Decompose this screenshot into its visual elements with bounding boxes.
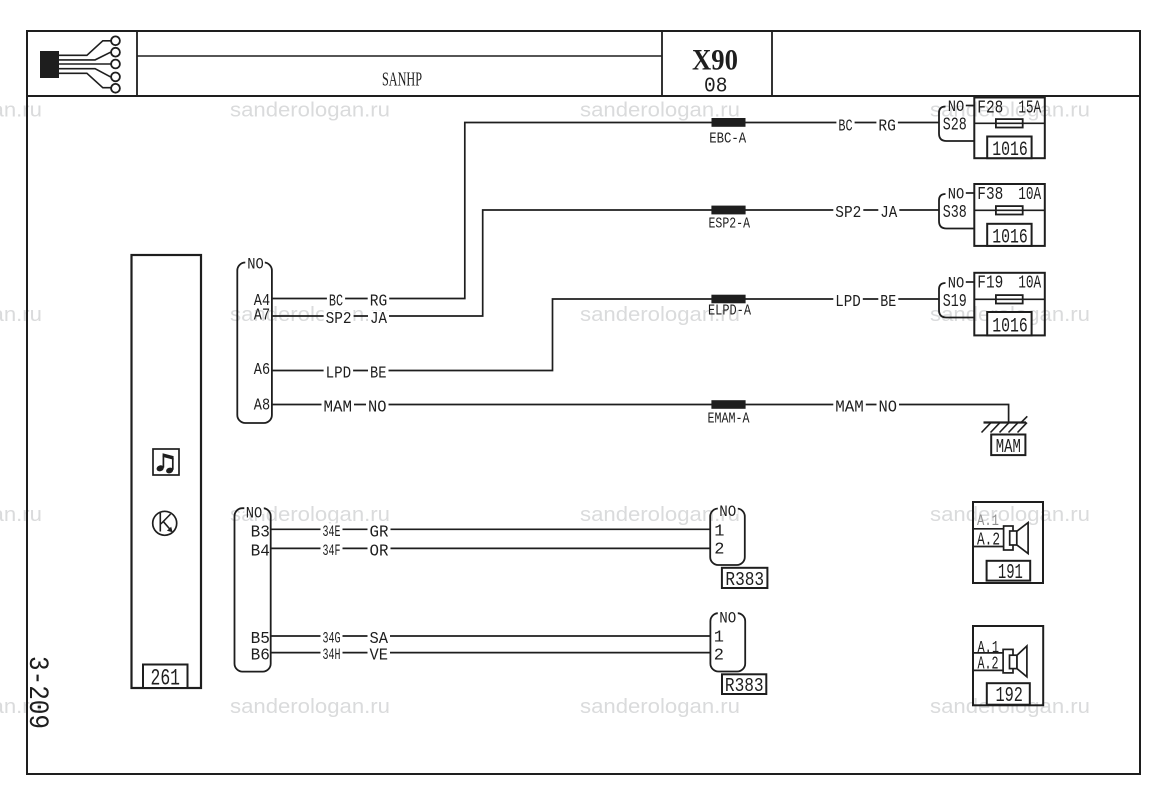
svg-text:LPD: LPD bbox=[835, 293, 861, 312]
wire 34G-SA (B5 to R383 pin 1) bbox=[271, 635, 711, 637]
svg-text:BC: BC bbox=[838, 118, 852, 137]
svg-text:34G: 34G bbox=[323, 630, 341, 648]
splice EBC-A bbox=[712, 118, 746, 127]
wire BC-RG (A4 to fuse F28) bbox=[272, 123, 939, 299]
svg-text:S19: S19 bbox=[943, 292, 967, 312]
svg-text:RG: RG bbox=[370, 293, 388, 312]
svg-text:B3: B3 bbox=[251, 523, 270, 542]
svg-text:S28: S28 bbox=[943, 116, 967, 136]
svg-text:S38: S38 bbox=[943, 203, 967, 223]
svg-text:NO: NO bbox=[719, 503, 736, 521]
wire (speaker 191 A.2) bbox=[973, 546, 1004, 548]
svg-text:X90: X90 bbox=[692, 44, 738, 77]
radio unit 261 bbox=[132, 255, 202, 688]
svg-text:1: 1 bbox=[714, 522, 724, 541]
svg-text:NO: NO bbox=[719, 610, 736, 628]
svg-text:NO: NO bbox=[948, 98, 965, 116]
wire 34H-VE (B6 to R383 pin 2) bbox=[271, 652, 711, 654]
svg-text:A8: A8 bbox=[254, 396, 270, 415]
svg-text:MAM: MAM bbox=[835, 399, 864, 418]
svg-text:EMAM-A: EMAM-A bbox=[708, 410, 750, 427]
svg-text:SP2: SP2 bbox=[326, 310, 352, 329]
svg-text:JA: JA bbox=[370, 310, 388, 329]
svg-text:SP2: SP2 bbox=[835, 204, 861, 223]
splice ESP2-A bbox=[711, 206, 745, 215]
svg-text:R383: R383 bbox=[725, 675, 764, 697]
unit label 192 bbox=[987, 683, 1030, 705]
svg-text:BC: BC bbox=[329, 293, 343, 312]
speaker 192 symbol bbox=[1003, 646, 1027, 677]
svg-text:B4: B4 bbox=[251, 542, 270, 561]
svg-text:MAM: MAM bbox=[324, 399, 353, 418]
connector S38 bbox=[939, 194, 974, 229]
svg-text:192: 192 bbox=[996, 685, 1023, 708]
radio key icon bbox=[153, 511, 177, 535]
svg-text:EBC-A: EBC-A bbox=[709, 131, 746, 148]
svg-text:F38: F38 bbox=[977, 185, 1003, 205]
title SANHP bbox=[137, 55, 662, 57]
svg-text:1016: 1016 bbox=[992, 316, 1028, 339]
wire SP2-JA (A7 to fuse F38) bbox=[272, 210, 939, 316]
svg-text:sanderologan.ru: sanderologan.ru bbox=[0, 504, 42, 526]
connector A (radio, black) bbox=[237, 263, 272, 424]
svg-text:10A: 10A bbox=[1018, 185, 1041, 205]
wire 34F-OR (B4 to R383 pin 2) bbox=[271, 547, 711, 549]
speaker 191 bbox=[973, 502, 1043, 583]
wire (speaker 192 A.2) bbox=[973, 669, 1003, 671]
connector R383 (rear) bbox=[710, 613, 745, 671]
svg-text:1016: 1016 bbox=[992, 226, 1028, 249]
svg-text:GR: GR bbox=[370, 523, 389, 542]
wire (speaker 191 A.1) bbox=[973, 528, 1004, 530]
svg-text:sanderologan.ru: sanderologan.ru bbox=[0, 100, 42, 122]
svg-text:VE: VE bbox=[370, 647, 389, 666]
connector B (radio, black) bbox=[235, 508, 271, 671]
wire (speaker 192 A.1) bbox=[973, 652, 1003, 654]
svg-text:B6: B6 bbox=[251, 647, 270, 666]
connector label R383 bbox=[722, 568, 768, 588]
svg-text:261: 261 bbox=[151, 666, 181, 692]
svg-text:ELPD-A: ELPD-A bbox=[708, 303, 751, 320]
splice ELPD-A bbox=[711, 295, 745, 304]
svg-text:NO: NO bbox=[246, 504, 263, 522]
svg-text:1: 1 bbox=[714, 629, 724, 648]
wire MAM-NO (A8 to ground MAM) bbox=[272, 405, 1009, 423]
title block X90 08 bbox=[661, 31, 663, 96]
svg-text:sanderologan.ru: sanderologan.ru bbox=[930, 504, 1090, 526]
connector S19 bbox=[939, 283, 974, 318]
ground MAM bbox=[982, 416, 1028, 432]
wire 34E-GR (B3 to R383 pin 1) bbox=[271, 528, 711, 530]
svg-text:34H: 34H bbox=[323, 646, 341, 664]
svg-text:sanderologan.ru: sanderologan.ru bbox=[230, 100, 390, 122]
radio music note icon bbox=[153, 449, 179, 475]
svg-text:2: 2 bbox=[714, 540, 724, 559]
wire LPD-BE (A6 to fuse F19) bbox=[272, 299, 939, 371]
fuse F38 10A bbox=[974, 184, 1045, 246]
connector S28 bbox=[939, 107, 974, 142]
connector R383 (front) bbox=[710, 509, 745, 566]
svg-text:34E: 34E bbox=[323, 523, 341, 541]
svg-text:1016: 1016 bbox=[992, 139, 1028, 162]
svg-text:BE: BE bbox=[880, 293, 896, 312]
svg-text:191: 191 bbox=[998, 562, 1023, 585]
unit label 191 bbox=[987, 561, 1031, 581]
svg-text:A6: A6 bbox=[254, 361, 270, 380]
svg-text:3-209: 3-209 bbox=[21, 656, 52, 729]
title block connector icon bbox=[27, 31, 1140, 96]
svg-text:A.2: A.2 bbox=[978, 655, 999, 675]
svg-text:F28: F28 bbox=[977, 98, 1003, 118]
svg-text:R383: R383 bbox=[725, 569, 764, 591]
svg-text:OR: OR bbox=[370, 542, 389, 561]
svg-text:LPD: LPD bbox=[326, 365, 352, 384]
svg-text:34F: 34F bbox=[323, 542, 341, 560]
svg-text:NO: NO bbox=[879, 399, 898, 418]
connector label R383 bbox=[722, 674, 766, 694]
svg-text:ESP2-A: ESP2-A bbox=[709, 216, 751, 233]
speaker 192 bbox=[973, 626, 1043, 705]
svg-text:NO: NO bbox=[948, 275, 965, 293]
svg-text:JA: JA bbox=[880, 204, 898, 223]
watermark bbox=[0, 100, 1090, 719]
svg-text:F19: F19 bbox=[977, 274, 1003, 294]
svg-text:NO: NO bbox=[368, 399, 387, 418]
svg-text:10A: 10A bbox=[1018, 274, 1041, 294]
svg-text:sanderologan.ru: sanderologan.ru bbox=[230, 696, 390, 718]
svg-text:A.1: A.1 bbox=[977, 512, 999, 530]
svg-text:BE: BE bbox=[370, 365, 387, 384]
svg-text:RG: RG bbox=[878, 118, 896, 137]
svg-text:sanderologan.ru: sanderologan.ru bbox=[580, 696, 740, 718]
unit label 261 bbox=[143, 665, 188, 689]
splice EMAM-A bbox=[711, 400, 745, 409]
svg-text:sanderologan.ru: sanderologan.ru bbox=[0, 304, 42, 326]
svg-text:2: 2 bbox=[714, 646, 724, 665]
svg-text:15A: 15A bbox=[1018, 98, 1041, 118]
fuse F28 15A bbox=[974, 98, 1045, 159]
fuse F19 10A bbox=[974, 273, 1045, 336]
svg-text:08: 08 bbox=[704, 76, 728, 99]
svg-text:NO: NO bbox=[247, 256, 264, 274]
speaker 191 symbol bbox=[1004, 523, 1029, 554]
svg-text:A7: A7 bbox=[254, 306, 270, 325]
svg-text:SANHP: SANHP bbox=[382, 69, 422, 91]
svg-text:NO: NO bbox=[948, 186, 965, 204]
svg-text:MAM: MAM bbox=[996, 436, 1021, 458]
